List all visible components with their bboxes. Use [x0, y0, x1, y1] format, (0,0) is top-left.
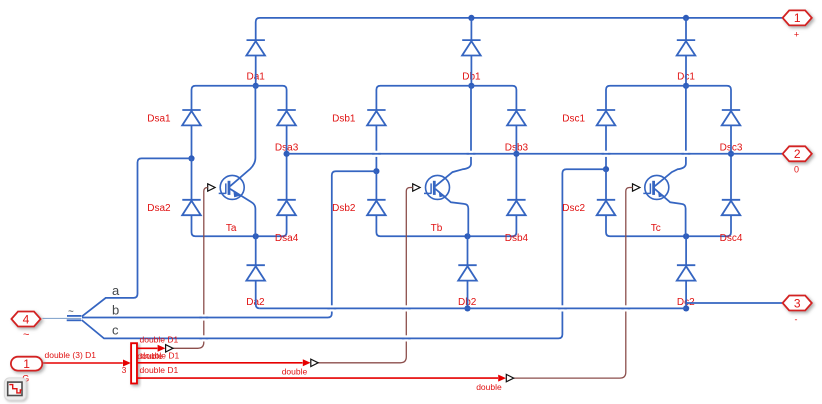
diode Dc1 — [677, 40, 696, 55]
wire port 4 to splitter (grey) — [42, 317, 81, 319]
diode Dsb3 — [507, 110, 526, 125]
diode Db2 — [458, 265, 477, 280]
transistor Tc (C phase IGBT) — [643, 175, 669, 199]
wire bus to Da2 — [255, 236, 257, 265]
svg-text:Ta: Ta — [226, 223, 237, 234]
svg-text:3: 3 — [122, 365, 127, 375]
wire emitter Tb — [435, 189, 468, 236]
svg-text:double D1: double D1 — [140, 365, 179, 375]
wire crossing at 562.4,308.4 — [558, 305, 567, 311]
diode Dsa1 — [182, 110, 201, 125]
wire Dsa1 to node — [191, 125, 193, 158]
svg-text:double D1: double D1 — [140, 335, 179, 345]
wire node to input c — [82, 169, 606, 338]
wire crossing at 685.9,153.8 — [682, 151, 691, 157]
wire Da1 to junction — [255, 56, 257, 86]
node bottom row b — [464, 305, 470, 311]
wire gate b (maroon) — [318, 188, 413, 363]
node Dsb3 row — [513, 151, 519, 157]
svg-text:double: double — [282, 366, 308, 376]
arrow G input — [123, 360, 131, 367]
arrow demux out1 — [158, 345, 166, 352]
svg-text:Dsc4: Dsc4 — [720, 233, 743, 244]
diode Dsb2 — [367, 200, 386, 215]
wire Dc1 to junction — [685, 56, 687, 86]
svg-text:Dsc1: Dsc1 — [562, 113, 585, 124]
diode Da2 — [246, 265, 265, 280]
diode Dsa2 — [182, 200, 201, 215]
node Dc1 junction — [683, 83, 689, 89]
wire crossing (maroon) at 203.8,317.5 — [199, 314, 208, 320]
wire emitter Tc — [655, 189, 686, 236]
wire node to input a — [82, 158, 192, 316]
wire Db2 to bottom row — [467, 281, 469, 309]
emitter arrow Tb — [439, 191, 446, 197]
three-phase splitter bars — [67, 315, 82, 321]
wire Dsb3 node to Dsb4 — [515, 125, 517, 199]
wire junction row b — [376, 86, 516, 110]
svg-text:double D1: double D1 — [141, 350, 180, 360]
port arrow gate c — [506, 374, 513, 381]
wire node to Dsb2 — [375, 171, 377, 199]
svg-text:Dsa1: Dsa1 — [147, 113, 171, 124]
wire dc- to port 3 — [686, 302, 782, 304]
wire junction row c — [606, 86, 731, 110]
svg-text:Dsa4: Dsa4 — [275, 233, 299, 244]
wire crossing (maroon) at 406.3,308.4 — [402, 305, 411, 311]
svg-text:~: ~ — [68, 307, 74, 318]
svg-text:~: ~ — [23, 329, 29, 341]
wire node to Dsc2 — [605, 169, 607, 199]
svg-text:1: 1 — [794, 11, 801, 25]
wire emitter bus a — [192, 215, 287, 236]
svg-text:c: c — [112, 322, 119, 337]
wire crossing at 376.4,153.8 — [372, 151, 381, 157]
wire collector Tb — [435, 86, 471, 186]
diode Dc2 — [677, 265, 696, 280]
wire emitter bus c — [606, 215, 731, 236]
wire junction row a — [192, 86, 287, 110]
wire Dc2 to bottom row — [685, 281, 687, 309]
wire bottom diode row — [260, 307, 686, 309]
node bottom row c — [683, 305, 689, 311]
arrow demux out3 — [498, 375, 506, 382]
diode Dsb4 — [507, 200, 526, 215]
wire demux out3 — [137, 377, 498, 379]
node emitter bus b — [464, 233, 470, 239]
svg-text:Dsc2: Dsc2 — [562, 203, 585, 214]
wire node to Dsa2 — [191, 158, 193, 199]
port arrow gate b — [311, 359, 318, 366]
diode Dsa4 — [277, 200, 296, 215]
wire gate a (maroon) — [173, 188, 208, 349]
demux (3 outputs) — [131, 343, 137, 383]
port 3 (-) — [783, 296, 812, 311]
wire Dsa3 node to Dsa4 — [286, 125, 288, 199]
svg-text:0: 0 — [794, 165, 799, 175]
gate input arrow Ta — [208, 184, 215, 191]
node Dsa3 row — [284, 151, 290, 157]
port 1 input G — [11, 357, 42, 371]
svg-text:Dsb4: Dsb4 — [505, 233, 529, 244]
wire crossing (maroon) at 406.3,338.4 — [402, 335, 411, 341]
wire Dsc3 node to Dsc4 — [730, 125, 732, 199]
timing legend icon — [4, 378, 26, 400]
svg-text:3: 3 — [794, 296, 801, 310]
svg-text:+: + — [794, 30, 799, 40]
diode Dsc1 — [597, 110, 616, 125]
port arrow gate a — [166, 345, 173, 352]
svg-text:1: 1 — [23, 357, 30, 371]
node Dsa1-Dsa2 — [188, 155, 194, 161]
emitter arrow Tc — [658, 191, 665, 197]
emitter arrow Ta — [233, 191, 240, 197]
node Da1 junction — [253, 83, 259, 89]
port 2 (0) — [783, 146, 812, 161]
wire emitter bus b — [376, 215, 516, 236]
wire crossing at 331.8,308.4 — [327, 305, 336, 311]
wire collector Tc — [655, 86, 686, 186]
svg-text:Dsa2: Dsa2 — [147, 203, 171, 214]
port 1 (+) — [783, 10, 812, 25]
gate input arrow Tb — [413, 184, 420, 191]
wire G input to demux — [42, 362, 122, 364]
transistor Tb (B phase IGBT) — [424, 175, 450, 199]
wire top dc+ bus — [256, 18, 782, 40]
wire crossing at 606.0,153.8 — [602, 151, 611, 157]
svg-text:double: double — [476, 382, 502, 392]
wire crossing (maroon) at 203.8,338.4 — [199, 335, 208, 341]
node Db1 junction — [468, 83, 474, 89]
node Dsb1-Dsb2 — [373, 168, 379, 174]
wire Dsb1 to node — [375, 125, 377, 171]
wire gate c (maroon) — [514, 188, 633, 379]
diode Db1 — [462, 40, 481, 55]
wire bus to Db1 — [470, 18, 472, 40]
wire Dsc1 to node — [605, 125, 607, 169]
wire emitter Ta — [230, 189, 255, 236]
wire neutral row to port 2 — [287, 153, 782, 155]
node emitter bus a — [253, 233, 259, 239]
wire demux out1 — [137, 347, 157, 349]
svg-text:Dsb2: Dsb2 — [332, 203, 356, 214]
node top bus phase b — [468, 15, 474, 21]
svg-text:Tb: Tb — [431, 223, 443, 234]
svg-text:4: 4 — [23, 312, 30, 326]
node emitter bus c — [683, 233, 689, 239]
diode Dsc2 — [597, 200, 616, 215]
wire bus to Dc2 — [685, 236, 687, 265]
diode Dsa3 — [277, 110, 296, 125]
svg-text:b: b — [112, 303, 119, 318]
diode Da1 — [246, 40, 265, 55]
port 4 (~) — [11, 312, 40, 327]
node Dsc1-Dsc2 — [603, 166, 609, 172]
arrow demux out2 — [303, 359, 311, 366]
wire bus to Dc1 — [685, 18, 687, 40]
wire Db1 to junction — [470, 56, 472, 86]
svg-text:Dsb1: Dsb1 — [332, 113, 356, 124]
svg-text:double (3) D1: double (3) D1 — [45, 350, 97, 360]
wire crossing at 471.0,153.8 — [467, 151, 476, 157]
svg-text:a: a — [112, 283, 120, 298]
gate input arrow Tc — [633, 184, 640, 191]
wire bus to Db2 — [467, 236, 469, 265]
wire demux out2 — [137, 362, 303, 364]
node Dsc3 row — [728, 151, 734, 157]
diode Dsb1 — [367, 110, 386, 125]
wire crossing (maroon) at 625.8,308.4 — [621, 305, 630, 311]
wire node to input b — [82, 171, 376, 317]
wire Da2 to bottom row — [256, 281, 260, 309]
diode Dsc3 — [722, 110, 741, 125]
svg-text:Tc: Tc — [651, 223, 661, 234]
transistor Ta (A phase IGBT) — [219, 175, 245, 199]
wire collector Ta — [230, 86, 255, 186]
svg-text:-: - — [795, 315, 798, 325]
node top bus phase c — [683, 15, 689, 21]
svg-text:2: 2 — [794, 147, 801, 161]
diode Dsc4 — [722, 200, 741, 215]
